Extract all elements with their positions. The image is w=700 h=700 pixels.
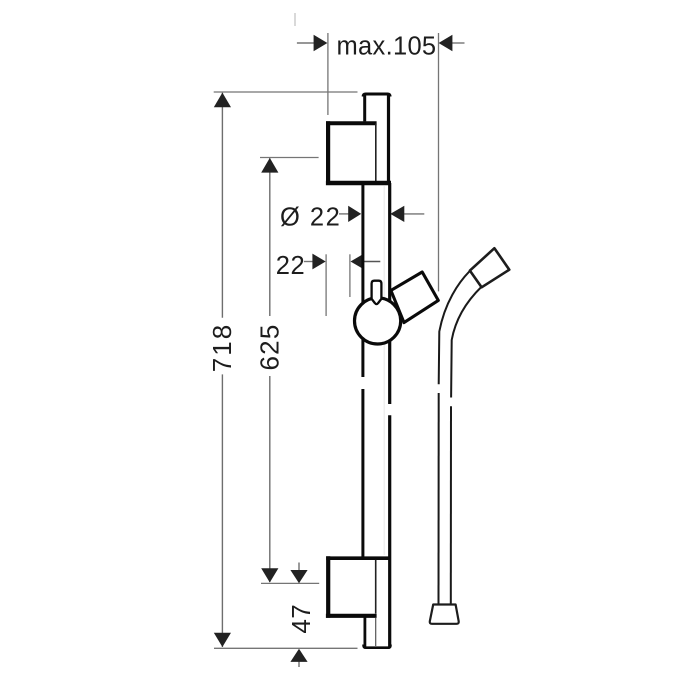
dimension max.105 right extension line [438, 33, 440, 291]
hose: lower curve + right vertical line [451, 287, 481, 398]
top wall bracket left edge [326, 121, 330, 185]
dimension 22 right extension line [349, 254, 351, 297]
wall bar: bottom foot inner thin line [375, 618, 377, 646]
svg-text:625: 625 [254, 324, 284, 371]
dimension 22 left extension line [325, 254, 327, 316]
top wall bracket right edge (thin) [375, 124, 377, 182]
hose: upper curve + left vertical line [439, 271, 470, 384]
dimension 718 top extension line [214, 91, 358, 93]
dimension 625 bottom arrow [261, 568, 278, 582]
dimension 625 vertical line [269, 158, 271, 316]
dimension 22 right arrow [363, 261, 380, 263]
bottom wall bracket left edge [326, 556, 330, 618]
wall bar: rod faint inner highlight [383, 186, 385, 555]
thick band: bottom plate top + bottom bracket top [326, 556, 391, 560]
dimension 718 top arrow [214, 93, 231, 108]
dimension 625 top arrow [261, 158, 278, 173]
hose bottom end fitting (trapezoid) [430, 605, 459, 624]
dimension 22 left arrow [304, 261, 313, 263]
dimension max.105 left extension line [327, 33, 329, 115]
svg-text:Ø 22: Ø 22 [280, 204, 341, 232]
dimension 47 bottom arrow (pointing up) [298, 661, 300, 667]
svg-text:max.105: max.105 [337, 32, 437, 60]
dimension max.105 right arrow [452, 42, 465, 44]
wall bar: top plate left edge [363, 95, 366, 125]
dimension max.105 left arrow [297, 42, 314, 44]
dimension 718 bottom arrow [214, 633, 231, 647]
dimension 718 vertical line [221, 93, 223, 318]
dimension 718/47 bottom extension line [214, 647, 358, 649]
handshower holder socket (rotated rectangle) [391, 272, 438, 323]
dimension 625 top extension line [260, 157, 319, 159]
dimension 625/47 shared extension line [261, 582, 319, 584]
thick band: bracket bottom + plate bottom [326, 181, 391, 185]
top wall bracket fill [326, 121, 377, 184]
bottom wall bracket bottom edge [326, 614, 377, 618]
dimension Ø22 left arrow [339, 213, 349, 215]
wall bar: top plate top edge [363, 94, 390, 97]
wall bar: bottom foot left edge [363, 616, 366, 647]
wall bar: rod left edge [361, 181, 364, 377]
wall bar: bottom foot bottom edge [364, 645, 391, 648]
faint artifact mark top [294, 13, 296, 26]
bottom wall bracket right edge (thin) [375, 560, 377, 614]
wall bar: rod right edge [387, 94, 390, 183]
hose top fitting (rotated rectangle) [470, 248, 509, 287]
slider knob circle [355, 298, 401, 344]
dimension Ø22 right arrow [404, 213, 424, 215]
svg-text:718: 718 [207, 323, 237, 372]
bottom wall bracket fill [326, 558, 377, 616]
slider pin [372, 281, 382, 304]
svg-text:22: 22 [276, 252, 305, 280]
top wall bracket top edge [326, 121, 377, 125]
dimension 47 top arrow (pointing down) [298, 563, 300, 571]
svg-text:47: 47 [286, 604, 316, 634]
